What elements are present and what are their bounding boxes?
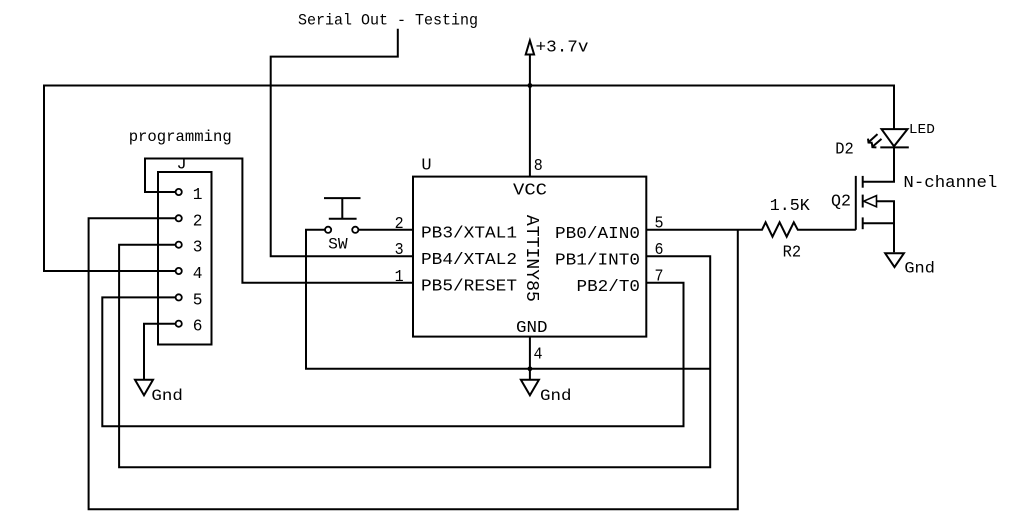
svg-text:3: 3 — [193, 239, 203, 258]
svg-text:PB1/INT0: PB1/INT0 — [555, 251, 640, 270]
svg-text:SW: SW — [328, 235, 348, 253]
svg-text:D2: D2 — [835, 140, 854, 159]
svg-text:1: 1 — [193, 186, 203, 205]
svg-text:R2: R2 — [783, 243, 802, 262]
svg-text:ATTINY85: ATTINY85 — [521, 215, 541, 302]
svg-text:GND: GND — [516, 319, 548, 338]
svg-text:U: U — [421, 156, 431, 175]
svg-text:1: 1 — [395, 268, 404, 287]
svg-text:PB5/RESET: PB5/RESET — [421, 278, 517, 297]
svg-text:2: 2 — [395, 215, 404, 234]
svg-text:programming: programming — [129, 128, 232, 146]
svg-text:Gnd: Gnd — [540, 387, 572, 405]
svg-text:6: 6 — [655, 241, 664, 260]
svg-text:4: 4 — [193, 265, 203, 284]
svg-text:PB4/XTAL2: PB4/XTAL2 — [421, 251, 517, 270]
svg-text:8: 8 — [534, 157, 543, 176]
svg-text:4: 4 — [534, 346, 543, 365]
svg-text:3: 3 — [395, 241, 404, 260]
svg-text:5: 5 — [193, 291, 203, 310]
svg-text:5: 5 — [655, 214, 664, 233]
svg-text:1.5K: 1.5K — [770, 196, 810, 215]
svg-text:PB2/T0: PB2/T0 — [577, 278, 641, 297]
svg-text:PB0/AIN0: PB0/AIN0 — [555, 225, 640, 244]
svg-text:Gnd: Gnd — [904, 260, 935, 278]
svg-text:+3.7v: +3.7v — [536, 39, 589, 58]
svg-text:Gnd: Gnd — [151, 387, 183, 405]
svg-text:PB3/XTAL1: PB3/XTAL1 — [421, 225, 517, 244]
svg-text:VCC: VCC — [513, 181, 547, 200]
svg-text:2: 2 — [193, 212, 203, 231]
svg-text:N-channel: N-channel — [903, 174, 997, 193]
svg-text:LED: LED — [909, 123, 935, 138]
svg-text:Serial Out - Testing: Serial Out - Testing — [298, 11, 478, 29]
svg-text:J: J — [177, 156, 187, 175]
svg-text:6: 6 — [193, 318, 203, 337]
svg-text:Q2: Q2 — [831, 191, 851, 210]
svg-text:7: 7 — [655, 267, 664, 286]
